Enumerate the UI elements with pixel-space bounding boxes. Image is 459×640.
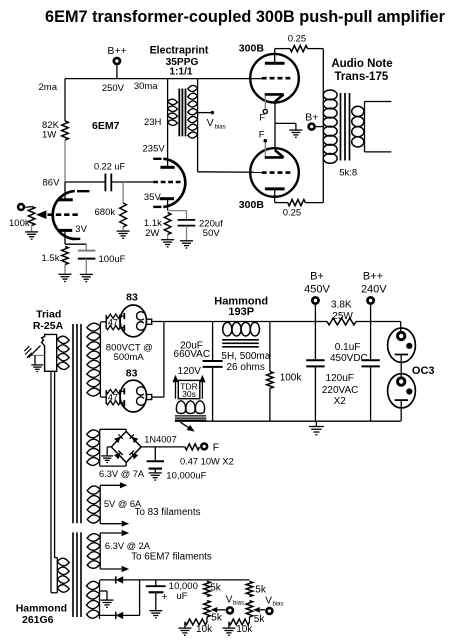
svg-text:3V: 3V — [75, 224, 87, 235]
svg-text:23H: 23H — [144, 117, 162, 128]
svg-text:235V: 235V — [143, 144, 166, 155]
resistor 1.1k 2W — [164, 213, 171, 235]
diode D2 — [132, 437, 139, 444]
svg-text:B+: B+ — [310, 271, 324, 283]
plate bar U1a — [58, 198, 73, 201]
interstage secondary winding — [188, 85, 198, 138]
ground bias cap — [149, 611, 162, 618]
wire 6.3V2A bottom — [100, 568, 121, 570]
wire B+ to OPT CT — [316, 126, 323, 128]
svg-text:30s: 30s — [182, 389, 196, 399]
svg-text:Triad: Triad — [36, 308, 61, 320]
ground 220uf — [180, 241, 193, 248]
wire bridge out — [141, 446, 185, 448]
resistor 100k — [267, 371, 274, 388]
wire 0.25 to OPT — [308, 48, 324, 50]
svg-text:B++: B++ — [107, 45, 126, 57]
svg-text:5k: 5k — [255, 585, 267, 596]
regulator tube OC3 upper — [388, 328, 416, 362]
wire to 82K — [64, 79, 66, 121]
svg-text:83: 83 — [126, 292, 138, 304]
wire 0.25 to OPT bottom — [305, 202, 323, 204]
svg-text:5k:8: 5k:8 — [339, 168, 357, 179]
potentiometer 5k — [246, 601, 253, 617]
wire cathode node U1b — [168, 210, 187, 212]
wire input to pot — [25, 206, 31, 209]
wire 1.5k to gnd — [64, 265, 66, 274]
svg-text:B+: B+ — [305, 111, 318, 123]
resistor 82K — [62, 121, 69, 140]
svg-text:B++: B++ — [363, 271, 383, 283]
261G6 primary winding — [57, 558, 69, 592]
interstage core — [178, 89, 180, 137]
wire 5V top — [100, 484, 120, 486]
wire OPT primary spine — [322, 49, 324, 203]
capacitor 120uF/0.1uF right — [361, 359, 379, 361]
interstage primary winding — [168, 99, 178, 125]
svg-text:100uF: 100uF — [99, 254, 126, 265]
ground 10k — [178, 628, 191, 635]
wire OC3 join — [400, 355, 402, 377]
svg-text:1N4007: 1N4007 — [144, 435, 177, 445]
wire plate node to cap — [65, 181, 105, 183]
svg-text:450V: 450V — [304, 283, 330, 295]
filament 300B lower — [275, 150, 284, 157]
wire B++ cap branch — [370, 305, 372, 360]
grid arrow from pot wiper — [36, 210, 46, 219]
wire 6.3V2A spine — [99, 533, 101, 569]
svg-text:F: F — [259, 129, 265, 140]
wire B++ rail / 300B grid top — [65, 78, 262, 80]
wire 5V spine — [99, 485, 101, 523]
cathode bar U1b — [160, 197, 174, 200]
line filter R-25A box — [42, 334, 57, 371]
svg-text:Electraprint: Electraprint — [150, 45, 209, 57]
tube 300B lower envelope — [250, 148, 299, 197]
bridge rectifier 1N4007 — [111, 431, 141, 462]
wire to 680k — [122, 182, 124, 203]
winding 6.3V 7A — [87, 430, 100, 465]
OPT core — [340, 93, 342, 161]
svg-text:86V: 86V — [43, 177, 61, 188]
ground 680k — [117, 231, 130, 238]
choke core — [222, 339, 259, 341]
relay contact arrows — [175, 380, 177, 399]
wire bias join — [139, 580, 141, 616]
capacitor 220uf 50V — [186, 211, 188, 220]
svg-text:10,000uF: 10,000uF — [166, 471, 206, 482]
relay core — [175, 415, 206, 417]
svg-text:10k: 10k — [196, 624, 213, 635]
svg-text:50V: 50V — [203, 228, 221, 239]
svg-text:To 6EM7 filaments: To 6EM7 filaments — [131, 551, 212, 562]
TDR 30s box — [178, 380, 200, 398]
svg-text:5k: 5k — [254, 614, 266, 625]
wiper arrow — [260, 609, 265, 611]
wire bias CT — [100, 590, 108, 592]
envelope dash bottom t2 — [153, 206, 161, 208]
terminal B+ 450V — [311, 296, 320, 305]
envelope dash top t2 — [153, 158, 161, 160]
capacitor 20uF 660VAC — [203, 360, 223, 362]
svg-text:+: + — [162, 591, 168, 603]
resistor 0.47 10W — [185, 444, 200, 450]
svg-text:1:1/1: 1:1/1 — [169, 67, 193, 78]
wire pot to gnd — [31, 226, 33, 232]
wire plate to 0.25 — [275, 48, 290, 50]
svg-text:240V: 240V — [361, 283, 387, 295]
svg-text:Audio Note: Audio Note — [331, 58, 392, 70]
resistor 0.25 upper — [290, 46, 308, 52]
wire cathode node — [65, 243, 86, 245]
envelope dash top t1 — [77, 190, 89, 192]
wire bias spine — [99, 581, 101, 619]
svg-text:6EM7: 6EM7 — [92, 120, 120, 132]
diode bias top — [116, 576, 123, 583]
AC plug symbol — [31, 354, 44, 356]
wire join 83 outputs — [163, 322, 165, 398]
svg-text:V: V — [226, 595, 233, 606]
svg-text:1.5k: 1.5k — [42, 253, 60, 264]
svg-text:To 83 filaments: To 83 filaments — [135, 507, 201, 518]
svg-text:F: F — [213, 442, 219, 454]
resistor 1.5k — [62, 247, 69, 265]
wire 100k top — [269, 322, 271, 372]
tube 6EM7 triode 1 envelope arc — [53, 191, 75, 239]
svg-text:0.47 10W X2: 0.47 10W X2 — [180, 457, 234, 467]
svg-text:R-25A: R-25A — [33, 320, 64, 332]
cathode bar U1a — [58, 229, 73, 232]
svg-text:6EM7 transformer-coupled 300B: 6EM7 transformer-coupled 300B push-pull … — [45, 8, 446, 26]
diode D3 — [114, 453, 121, 460]
grid 300B lower (dashed) — [262, 171, 291, 174]
svg-text:0.25: 0.25 — [288, 34, 307, 45]
wire 6.3V7A spine — [99, 429, 101, 466]
Hammond 261G6 core — [72, 324, 74, 523]
ground bias CT — [101, 600, 114, 607]
wire R-25A to primary B — [54, 371, 56, 557]
svg-text:680k: 680k — [95, 207, 116, 218]
terminal B++ 240V — [366, 296, 375, 305]
wire 100k bottom — [269, 388, 271, 421]
capacitor 10,000 uF bias — [155, 580, 157, 586]
wire to bridge top — [100, 428, 127, 430]
svg-text:193P: 193P — [228, 306, 254, 318]
capacitor 10,000uF filament — [154, 447, 156, 461]
potentiometer 100k — [28, 206, 35, 225]
ground 1.1k — [161, 240, 174, 247]
wire bridge gnd — [107, 446, 111, 448]
input terminal — [17, 203, 25, 211]
wire plate lead 300B upper — [274, 49, 276, 64]
wire OPT secondary spine — [364, 102, 366, 152]
svg-text:6.3V @ 7A: 6.3V @ 7A — [99, 469, 145, 479]
winding 6.3V 2A — [87, 534, 100, 569]
ground pot — [25, 232, 38, 239]
terminal F out — [200, 442, 208, 450]
regulator tube OC3 lower — [388, 374, 416, 408]
svg-text:35V: 35V — [144, 192, 162, 203]
wire bias bottom — [100, 614, 140, 616]
svg-text:30ma: 30ma — [134, 81, 158, 92]
svg-text:450VDC: 450VDC — [330, 353, 368, 364]
svg-text:F: F — [259, 113, 265, 124]
svg-text:V: V — [207, 117, 214, 129]
choke 193P winding — [223, 322, 232, 336]
ground 1.5k — [59, 274, 72, 281]
resistor 0.25 lower — [288, 200, 306, 206]
svg-text:220VAC: 220VAC — [322, 385, 359, 396]
svg-text:0.22 uF: 0.22 uF — [94, 162, 126, 172]
tube 300B upper envelope — [250, 54, 299, 103]
filament 300B upper — [265, 93, 284, 96]
wire B+ cap branch — [314, 305, 316, 360]
svg-text:300B: 300B — [239, 42, 265, 54]
plate bar U1b — [160, 166, 174, 169]
wire interstage primary / plate lead U1b — [167, 79, 169, 168]
grid 300B upper (dashed) — [262, 77, 291, 80]
svg-text:83: 83 — [126, 368, 138, 380]
wire OC3 bottom — [400, 400, 402, 421]
wire 82K to plate node — [64, 140, 66, 182]
terminal Vbias — [265, 607, 274, 616]
wire cap to grid U1b — [111, 181, 153, 183]
terminal B++ — [113, 57, 122, 66]
svg-text:300B: 300B — [239, 199, 265, 211]
wire 6.3V2A top — [100, 532, 121, 534]
wire interstage secondary — [197, 79, 199, 172]
svg-text:5k: 5k — [211, 612, 223, 623]
ground main — [309, 427, 324, 435]
plate bar 300B lower — [265, 187, 285, 190]
wire plate lead 300B lower — [274, 189, 276, 203]
wire R-25A to primary A — [50, 371, 52, 593]
wire B+ rail right — [356, 321, 401, 323]
wire bias rail — [100, 579, 250, 581]
svg-text:2ma: 2ma — [39, 82, 58, 93]
R-25A output winding — [58, 336, 70, 369]
wire interstage to grid 300B lower — [198, 171, 262, 174]
svg-text:120uF: 120uF — [326, 373, 354, 384]
terminal B+ opt — [307, 122, 316, 131]
ground 10000uF — [149, 473, 162, 480]
rectifier tube 83 upper — [100, 321, 106, 323]
resistor 680k — [120, 203, 127, 227]
svg-text:26 ohms: 26 ohms — [227, 362, 265, 373]
ground 100uF — [80, 274, 93, 281]
OPT primary winding — [323, 90, 337, 100]
wire 261G6 primary spine — [56, 558, 58, 593]
wire 83 lower out — [152, 396, 164, 398]
capacitor 100uF — [85, 244, 87, 250]
wire cathode lead U1b — [167, 199, 169, 211]
rectifier tube 83 lower — [100, 396, 106, 398]
resistor 5k upper — [204, 581, 211, 596]
svg-text:500mA: 500mA — [114, 352, 145, 363]
svg-text:5H, 500ma: 5H, 500ma — [221, 351, 270, 362]
tube 6EM7 triode 2 envelope arc — [163, 159, 185, 207]
svg-text:bias: bias — [233, 601, 244, 607]
svg-text:1W: 1W — [42, 130, 56, 141]
svg-text:0.1uF: 0.1uF — [335, 342, 361, 353]
wire plug gnd — [34, 355, 36, 364]
wire filament join — [274, 123, 276, 150]
resistor 5k upper — [246, 581, 253, 596]
ground AC plug — [31, 365, 43, 372]
wire plate lead U1a — [64, 182, 66, 199]
svg-text:47: 47 — [108, 393, 118, 403]
node Vbias tap — [198, 112, 212, 114]
relay coil — [176, 401, 185, 414]
ground bridge — [101, 456, 113, 463]
diode bias bottom — [116, 612, 123, 619]
svg-text:6.3V @ 2A: 6.3V @ 2A — [105, 541, 151, 551]
grid U1b (dashed) — [153, 181, 180, 184]
diode D1 — [114, 437, 121, 444]
wire 20uF branch — [212, 322, 214, 361]
svg-text:261G6: 261G6 — [22, 614, 54, 626]
wire 5V bottom — [100, 523, 121, 525]
svg-text:0.25: 0.25 — [283, 207, 302, 218]
svg-text:120V: 120V — [178, 366, 202, 377]
svg-text:5k: 5k — [210, 583, 222, 594]
svg-text:2W: 2W — [145, 228, 159, 239]
wire ground rail — [175, 420, 401, 422]
terminal F upper — [263, 109, 267, 113]
wire B+ rail left — [152, 321, 327, 323]
svg-text:OC3: OC3 — [412, 365, 435, 377]
wire B++ drop — [116, 65, 118, 78]
wire cathode lead U1a — [64, 230, 66, 244]
wire filament to gnd — [275, 122, 296, 124]
svg-text:250V: 250V — [102, 83, 125, 94]
ground filament — [289, 130, 302, 137]
svg-text:bias: bias — [273, 602, 284, 608]
capacitor 120uF/0.1uF left — [306, 359, 324, 361]
svg-text:V: V — [265, 596, 272, 607]
resistor 10k — [229, 619, 250, 625]
capacitor 0.22uF — [104, 174, 106, 192]
svg-text:25W: 25W — [332, 311, 353, 322]
HV 800VCT winding — [87, 323, 101, 396]
bias winding — [87, 581, 100, 618]
OPT secondary winding — [352, 106, 364, 116]
wire to bridge bottom — [100, 465, 127, 467]
winding 5V 6A — [87, 486, 100, 523]
svg-text:Hammond: Hammond — [16, 603, 67, 615]
svg-text:X2: X2 — [334, 396, 347, 407]
wire output bottom — [365, 151, 392, 153]
wire HV winding spine — [99, 323, 101, 397]
svg-text:100k: 100k — [280, 372, 303, 383]
plate bar 300B upper — [265, 62, 285, 65]
svg-text:3.8K: 3.8K — [331, 299, 352, 310]
resistor 10k — [185, 619, 207, 625]
ground 10k — [222, 628, 235, 635]
grid U1a (dashed) — [48, 213, 78, 216]
svg-text:10k: 10k — [236, 624, 253, 635]
svg-text:100k: 100k — [9, 218, 30, 229]
svg-text:uF: uF — [176, 591, 187, 602]
wire to OC3 — [400, 322, 402, 332]
resistor 3.8K 25W — [327, 318, 356, 325]
diode D4 — [132, 453, 139, 460]
svg-text:47: 47 — [108, 317, 118, 327]
svg-text:660VAC: 660VAC — [174, 349, 211, 360]
wiper arrow — [218, 609, 226, 611]
svg-text:Trans-175: Trans-175 — [335, 71, 389, 83]
wire relay arrow — [180, 422, 191, 429]
terminal Vbias — [226, 606, 235, 615]
svg-text:bias: bias — [215, 124, 226, 130]
envelope dash bottom t1 — [72, 238, 81, 240]
potentiometer 5k — [204, 601, 211, 617]
wire output top — [365, 101, 392, 103]
